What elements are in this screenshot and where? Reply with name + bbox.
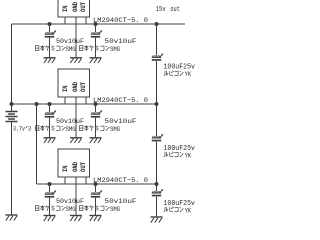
wire: stage3 horizontal rail [37, 183, 157, 185]
label: stage3 input cap brand 日本ケミコン (Japanese text drawn as strokes) [36, 205, 66, 211]
regulator U1 LM2940CT-5.0 (3-terminal, pins IN/GND/OUT) [58, 0, 90, 17]
wire: U2 GND pin lead down to ground [75, 97, 77, 138]
wire: riser from battery node to stage3 input [36, 104, 38, 184]
wire: stage3 output cap top lead [95, 184, 97, 192]
svg-text:15v: 15v [156, 6, 166, 14]
wire: stage2 output cap top lead [95, 104, 97, 112]
svg-text:SMG: SMG [66, 46, 76, 53]
node: riser junction to stage3 input [35, 102, 39, 106]
wire: stage1 output cap top lead [95, 24, 97, 32]
svg-text:LM2940CT−5. 0: LM2940CT−5. 0 [93, 17, 148, 25]
label: stage2 input cap brand 日本ケミコン (Japanese text drawn as strokes) [36, 125, 66, 131]
wire: stage3 input cap top lead [49, 184, 51, 192]
wire: left rail from battery - down to ground [11, 122, 13, 215]
ground (stage2 output cap) [90, 138, 102, 143]
svg-text:LM2940CT−5. 0: LM2940CT−5. 0 [93, 177, 148, 185]
capacitor C5 50v10uF (stage3 input bypass) [45, 190, 57, 197]
svg-text:IN: IN [62, 85, 69, 92]
wire: right rail C8 to C9 (through stage3-out node) [156, 142, 158, 191]
node: stage1 output cap junction [94, 22, 98, 26]
wire: U1 IN pin lead [64, 17, 66, 24]
svg-text:out: out [170, 6, 180, 14]
capacitor C6 50v10uF (stage3 output bypass) [91, 190, 103, 197]
svg-text:YK: YK [185, 71, 192, 78]
ground (stage3 output cap) [90, 216, 102, 222]
svg-text:SMG: SMG [66, 126, 76, 133]
node: stage1 input cap junction [48, 22, 52, 26]
svg-text:GND: GND [72, 82, 79, 92]
svg-text:IN: IN [62, 5, 69, 12]
wire: right rail C9 to ground [156, 197, 158, 217]
label: stage1 input cap brand 日本ケミコン (Japanese text drawn as strokes) [36, 45, 66, 51]
node: stage3 input cap junction [48, 182, 52, 186]
svg-text:OUT: OUT [80, 162, 87, 172]
label: C8 brand ルビコンYK (Japanese text drawn as strokes) [164, 152, 184, 157]
label: stage2 output cap brand 日本ケミコン (Japanese text drawn as strokes) [80, 125, 110, 131]
svg-text:SMG: SMG [110, 206, 120, 213]
svg-text:SMG: SMG [110, 46, 120, 53]
ground (stage1 input cap) [44, 58, 56, 63]
svg-text:50v10uF: 50v10uF [105, 198, 137, 206]
wire: U3 IN pin lead [64, 177, 66, 184]
svg-text:50v10uF: 50v10uF [56, 118, 84, 126]
ground (U2 GND pin) [70, 138, 82, 143]
node: stage3 output cap junction [94, 182, 98, 186]
wire: stage2 output cap bottom lead [95, 118, 97, 138]
regulator U3 LM2940CT-5.0 (3-terminal, pins IN/GND/OUT) [58, 149, 90, 177]
svg-text:3.7v*3: 3.7v*3 [13, 126, 31, 133]
wire: stage2 input cap top lead [49, 104, 51, 112]
wire: stage2 horizontal rail [12, 103, 157, 105]
svg-text:GND: GND [72, 2, 79, 12]
ground (U3 GND pin) [70, 216, 82, 222]
label: C7 brand ルビコンYK (Japanese text drawn as strokes) [164, 71, 184, 76]
wire: right rail C7 to C8 (through stage2-out node) [156, 61, 158, 136]
wire: stage3 output cap bottom lead [95, 198, 97, 216]
wire: left rail from stage1 input down to battery + [11, 24, 13, 111]
battery BT1 3.7v*3 [6, 112, 18, 122]
svg-text:50v10uF: 50v10uF [105, 38, 137, 46]
wire: U1 OUT pin lead [85, 17, 87, 24]
wire: U1 GND pin lead down to ground [75, 17, 77, 58]
svg-text:50v10uF: 50v10uF [56, 198, 84, 206]
capacitor C8 100uF25v (between stage2 out and stage3 out) [152, 134, 164, 141]
wire: stage1 horizontal rail with 15v out stub [12, 23, 186, 25]
wire: stage1 input cap top lead [49, 24, 51, 32]
node: stage2 output cap junction [94, 102, 98, 106]
svg-text:OUT: OUT [80, 82, 87, 92]
wire: stage3 input cap bottom lead [49, 198, 51, 216]
wire: U2 IN pin lead [64, 97, 66, 104]
svg-text:SMG: SMG [110, 126, 120, 133]
svg-text:GND: GND [72, 162, 79, 172]
node: stage2 input cap junction [48, 102, 52, 106]
wire: U3 GND pin lead down to ground [75, 177, 77, 216]
node: battery + junction [10, 102, 14, 106]
capacitor C4 50v10uF (stage2 output bypass) [91, 110, 103, 117]
node: stage3 output / right rail junction [155, 182, 159, 186]
ground (stage2 input cap) [44, 138, 56, 143]
label: stage3 output cap brand 日本ケミコン (Japanese text drawn as strokes) [80, 205, 110, 211]
capacitor C9 100uF25v (stage3 out to ground) [152, 189, 164, 196]
label: C9 brand ルビコンYK (Japanese text drawn as strokes) [164, 207, 184, 212]
svg-text:50v10uF: 50v10uF [56, 38, 84, 46]
svg-text:IN: IN [62, 165, 69, 172]
ground (U1 GND pin) [70, 58, 82, 63]
ground (battery negative) [6, 215, 18, 221]
wire: stage1 output cap bottom lead [95, 38, 97, 58]
svg-text:YK: YK [185, 207, 192, 214]
ground (stage3 input cap) [44, 216, 56, 222]
regulator U2 LM2940CT-5.0 (3-terminal, pins IN/GND/OUT) [58, 69, 90, 97]
wire: U3 OUT pin lead [85, 177, 87, 184]
wire: U2 OUT pin lead [85, 97, 87, 104]
svg-text:YK: YK [185, 152, 192, 159]
svg-text:OUT: OUT [80, 2, 87, 12]
wire: stage2 input cap bottom lead [49, 118, 51, 138]
svg-text:50v10uF: 50v10uF [105, 118, 137, 126]
capacitor C1 50v10uF (stage1 input bypass) [45, 30, 57, 37]
wire: right rail stage1-out to C7 [156, 24, 158, 55]
ground (right rail bottom) [151, 217, 163, 223]
node: stage1 output / right rail junction [155, 22, 159, 26]
svg-text:LM2940CT−5. 0: LM2940CT−5. 0 [93, 97, 148, 105]
capacitor C2 50v10uF (stage1 output bypass) [91, 30, 103, 37]
capacitor C3 50v10uF (stage2 input bypass) [45, 110, 57, 117]
label: stage1 output cap brand 日本ケミコン (Japanese text drawn as strokes) [80, 45, 110, 51]
capacitor C7 100uF25v (between 15v node and stage2 out) [152, 53, 164, 60]
node: stage2 output / right rail junction [155, 102, 159, 106]
wire: stage1 input cap bottom lead [49, 38, 51, 58]
ground (stage1 output cap) [90, 58, 102, 63]
svg-text:SMG: SMG [66, 206, 76, 213]
